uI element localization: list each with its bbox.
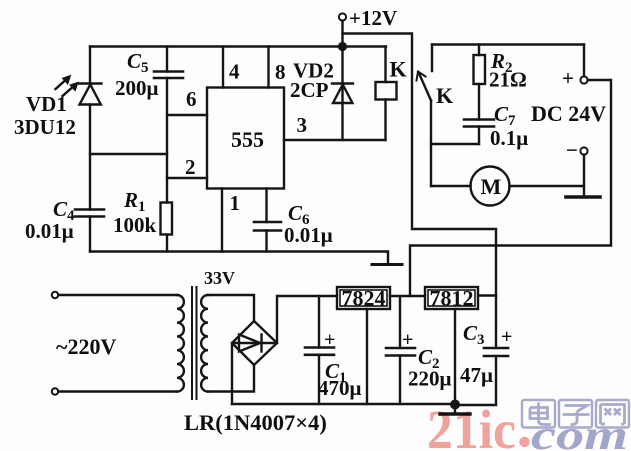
diode VD2 xyxy=(332,47,353,141)
terminal +12V xyxy=(339,13,346,20)
motor M xyxy=(471,167,510,206)
svg-text:VD1: VD1 xyxy=(26,92,67,116)
svg-text:21ic: 21ic xyxy=(427,399,516,451)
svg-text:220μ: 220μ xyxy=(408,367,452,391)
svg-text:100k: 100k xyxy=(113,213,157,237)
wire 7812 output xyxy=(478,294,496,296)
svg-text:com: com xyxy=(531,413,628,451)
svg-text:200μ: 200μ xyxy=(115,76,159,100)
capacitor C5 xyxy=(154,47,183,79)
wire pin 3 xyxy=(284,139,386,141)
transformer primary terminal bottom xyxy=(52,388,58,394)
capacitor C6 xyxy=(254,189,281,252)
capacitor C3 xyxy=(455,296,508,405)
wire DC minus down xyxy=(583,155,585,196)
transformer core xyxy=(192,287,197,399)
wire secondary bottom to bridge xyxy=(208,365,254,392)
wire VD1 branch to divider xyxy=(90,153,167,155)
svg-text:0.1μ: 0.1μ xyxy=(490,126,528,150)
transformer secondary winding xyxy=(201,295,208,392)
svg-text:K: K xyxy=(436,83,453,108)
wire left rail bottom xyxy=(89,217,91,252)
resistor R1 xyxy=(161,203,173,235)
capacitor C1 xyxy=(305,296,334,404)
svg-text:555: 555 xyxy=(231,127,264,152)
terminal DC minus xyxy=(580,147,587,154)
svg-text:0.01μ: 0.01μ xyxy=(25,219,74,243)
watermark 21ic.com dianziwang xyxy=(427,399,629,451)
wire left rail middle xyxy=(89,105,91,210)
svg-text:8: 8 xyxy=(275,60,286,84)
resistor R2 xyxy=(474,45,486,120)
wire motor right xyxy=(510,185,585,187)
svg-text:33V: 33V xyxy=(204,268,235,288)
wire pin 4 xyxy=(222,47,224,88)
photodiode VD1 xyxy=(56,76,102,105)
wire R1 bottom xyxy=(166,235,168,252)
svg-text:47μ: 47μ xyxy=(460,363,493,387)
wire pin 8 xyxy=(267,47,269,88)
svg-text:21Ω: 21Ω xyxy=(489,68,527,92)
svg-text:470μ: 470μ xyxy=(318,376,362,400)
svg-text:M: M xyxy=(481,174,502,199)
wire 24V feed xyxy=(410,80,611,296)
svg-text:3: 3 xyxy=(297,113,308,137)
transformer primary winding xyxy=(177,295,184,392)
transformer primary terminal top xyxy=(52,292,58,298)
wire snubber bottom xyxy=(431,143,479,145)
ground supply xyxy=(440,405,470,415)
wire primary bottom xyxy=(58,390,177,392)
svg-text:LR(1N4007×4): LR(1N4007×4) xyxy=(184,410,327,435)
wire pin 1 xyxy=(221,189,223,252)
chassis ground of 555 circuit xyxy=(372,263,402,266)
IC U1 555 xyxy=(207,88,284,189)
svg-text:3DU12: 3DU12 xyxy=(14,115,76,139)
node junction +12V rail xyxy=(338,42,347,51)
relay coil K xyxy=(376,47,397,141)
wire primary top xyxy=(58,294,177,296)
wire +12V terminal down xyxy=(341,21,343,47)
svg-text:+: + xyxy=(562,66,574,90)
regulator 7812 xyxy=(425,287,478,309)
svg-text:2: 2 xyxy=(185,155,196,179)
wire bottom rail of 555 circuit xyxy=(90,252,388,265)
wire secondary top to bridge xyxy=(208,295,254,321)
wire top rail xyxy=(90,45,386,47)
wire +12V feed from 7812 output xyxy=(343,34,497,297)
svg-text:4: 4 xyxy=(229,60,240,84)
capacitor C2 xyxy=(386,296,415,404)
svg-text:DC 24V: DC 24V xyxy=(531,101,606,126)
wire 7824 output xyxy=(390,295,425,297)
wire pin2 xyxy=(167,177,207,179)
svg-text:6: 6 xyxy=(186,87,197,111)
ground motor circuit xyxy=(566,195,600,199)
wire divider chain xyxy=(166,78,168,203)
node supply ground junction xyxy=(450,400,460,410)
wire left rail top xyxy=(89,47,91,84)
svg-text:+12V: +12V xyxy=(349,6,397,30)
wire bridge minus down xyxy=(231,343,233,404)
wire motor left xyxy=(431,185,471,187)
wire 7812 ground xyxy=(454,309,456,404)
bridge rectifier LR xyxy=(232,321,277,365)
wire motor top rail xyxy=(432,43,584,45)
svg-text:+: + xyxy=(324,329,335,351)
svg-text:~220V: ~220V xyxy=(56,334,116,359)
svg-text:+: + xyxy=(402,329,413,351)
capacitor C4 xyxy=(75,210,104,217)
svg-text:0.01μ: 0.01μ xyxy=(284,223,333,247)
wire pin6 xyxy=(167,114,207,116)
svg-text:7812: 7812 xyxy=(430,286,474,311)
wire supply ground rail xyxy=(232,403,455,405)
svg-text:7824: 7824 xyxy=(342,286,386,311)
svg-text:2CP: 2CP xyxy=(290,78,329,102)
wire 7824 ground xyxy=(366,309,368,404)
svg-text:−: − xyxy=(566,138,578,162)
svg-text:K: K xyxy=(390,57,407,82)
capacitor C7 xyxy=(464,120,494,145)
svg-text:1: 1 xyxy=(230,191,241,215)
svg-text:+: + xyxy=(501,326,512,348)
terminal DC plus xyxy=(580,45,587,84)
regulator 7824 xyxy=(337,287,390,309)
wire bridge plus up to 7824 xyxy=(277,296,337,343)
switch contact K xyxy=(417,45,433,187)
